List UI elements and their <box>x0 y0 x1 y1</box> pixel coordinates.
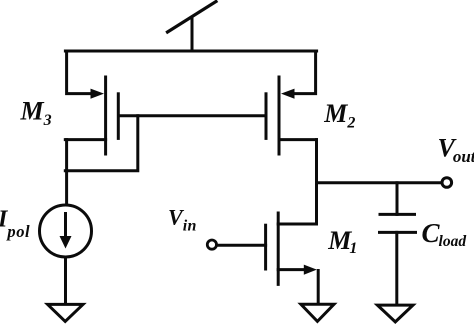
svg-text:Ipol: Ipol <box>0 207 30 242</box>
svg-text:M3: M3 <box>20 97 52 130</box>
wire VDD to M2 source <box>294 51 316 94</box>
transistor M1 <box>266 213 317 284</box>
wire gate line M3-M2 <box>120 114 265 117</box>
ground (under M1) <box>301 304 334 321</box>
capacitor Cload <box>380 214 416 232</box>
wire VDD rail <box>65 50 316 53</box>
wire output node to Vout terminal <box>317 181 442 184</box>
wire Vin to M1 gate <box>217 244 266 247</box>
transistor M2 <box>266 77 317 154</box>
wire capacitor to ground <box>395 232 398 304</box>
wire M1 source to ground <box>317 271 320 304</box>
svg-text:Vin: Vin <box>168 204 197 234</box>
current source Ipol <box>40 205 92 257</box>
power supply symbol <box>168 2 217 52</box>
wire diode connection <box>65 116 138 171</box>
wire M3 drain to current source <box>65 140 68 205</box>
wire VDD to M3 source <box>67 51 90 94</box>
ground (under Cload) <box>377 305 413 322</box>
ground (left) <box>48 304 83 321</box>
svg-text:Cload: Cload <box>422 218 467 250</box>
svg-text:M2: M2 <box>323 99 355 132</box>
wire Ipol to ground <box>64 257 67 304</box>
terminal Vin <box>207 240 216 249</box>
wire M2 drain to M1 drain (output node) <box>315 140 318 224</box>
svg-text:M1: M1 <box>327 226 357 257</box>
transistor M3 <box>65 77 118 154</box>
svg-text:Vout: Vout <box>438 133 474 166</box>
wire output to capacitor <box>396 183 399 215</box>
terminal Vout <box>442 178 452 188</box>
